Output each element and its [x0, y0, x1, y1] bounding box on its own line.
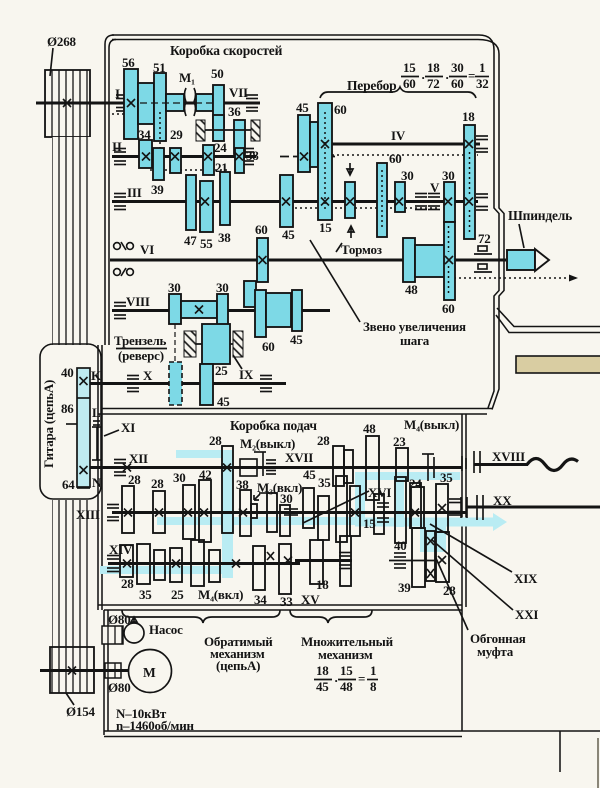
svg-text:М₄(выкл): М₄(выкл) — [404, 417, 459, 432]
svg-text:XV: XV — [301, 592, 320, 607]
svg-text:1: 1 — [479, 60, 485, 75]
svg-text:n–1460об/мин: n–1460об/мин — [116, 718, 194, 733]
svg-text:50: 50 — [211, 66, 224, 81]
svg-text:60: 60 — [389, 151, 402, 166]
svg-text:III: III — [127, 185, 142, 200]
svg-text:45: 45 — [290, 332, 303, 347]
svg-text:35: 35 — [440, 470, 453, 485]
svg-text:45: 45 — [282, 227, 295, 242]
svg-text:X: X — [143, 368, 153, 383]
svg-text:28: 28 — [121, 576, 134, 591]
svg-text:15: 15 — [403, 60, 416, 75]
svg-text:30: 30 — [280, 491, 293, 506]
svg-text:30: 30 — [168, 280, 181, 295]
svg-text:47: 47 — [184, 233, 197, 248]
svg-text:Шпиндель: Шпиндель — [508, 208, 572, 223]
svg-text:35: 35 — [318, 475, 331, 490]
svg-text:55: 55 — [200, 236, 213, 251]
svg-text:36: 36 — [228, 104, 241, 119]
svg-text:25: 25 — [171, 587, 184, 602]
svg-text:45: 45 — [303, 467, 316, 482]
svg-text:XIX: XIX — [514, 571, 538, 586]
svg-text:IV: IV — [391, 128, 406, 143]
svg-text:механизм: механизм — [318, 647, 373, 662]
svg-text:33: 33 — [280, 594, 293, 609]
svg-text:Звено увеличения: Звено увеличения — [363, 319, 466, 334]
svg-text:Перебор: Перебор — [347, 78, 396, 93]
svg-text:(реверс): (реверс) — [118, 348, 164, 363]
svg-text:24: 24 — [214, 140, 227, 155]
svg-text:Ø80: Ø80 — [108, 680, 131, 695]
svg-text:М₁: М₁ — [179, 70, 195, 85]
svg-text:48: 48 — [340, 679, 353, 694]
svg-text:Трензель: Трензель — [114, 333, 167, 348]
svg-text:муфта: муфта — [477, 644, 514, 659]
svg-text:(цепьА): (цепьА) — [216, 658, 260, 673]
svg-text:·: · — [421, 70, 425, 85]
svg-text:Тормоз: Тормоз — [341, 242, 382, 257]
svg-text:VIII: VIII — [126, 294, 150, 309]
svg-text:28: 28 — [128, 472, 141, 487]
svg-text:45: 45 — [217, 394, 230, 409]
svg-text:48: 48 — [363, 421, 376, 436]
svg-text:38: 38 — [246, 148, 259, 163]
svg-text:Насос: Насос — [149, 622, 183, 637]
svg-text:Ø154: Ø154 — [66, 704, 96, 719]
svg-text:1: 1 — [370, 663, 376, 678]
svg-text:30: 30 — [216, 280, 229, 295]
svg-text:XI: XI — [121, 420, 135, 435]
svg-text:VII: VII — [229, 85, 248, 100]
svg-text:35: 35 — [139, 587, 152, 602]
svg-text:XXI: XXI — [515, 607, 538, 622]
svg-text:34: 34 — [254, 592, 267, 607]
svg-text:шага: шага — [400, 333, 430, 348]
svg-text:Ø268: Ø268 — [47, 34, 77, 49]
svg-text:28: 28 — [317, 433, 330, 448]
svg-text:32: 32 — [476, 76, 489, 91]
svg-text:30: 30 — [173, 470, 186, 485]
svg-text:М₄(вкл): М₄(вкл) — [198, 587, 243, 602]
svg-text:XVII: XVII — [285, 450, 313, 465]
svg-text:30: 30 — [451, 60, 464, 75]
svg-text:45: 45 — [296, 100, 309, 115]
svg-text:28: 28 — [151, 476, 164, 491]
svg-text:XIII: XIII — [76, 507, 100, 522]
svg-text:72: 72 — [478, 231, 491, 246]
svg-text:L: L — [92, 405, 101, 420]
svg-text:Коробка скоростей: Коробка скоростей — [170, 43, 283, 58]
svg-text:72: 72 — [427, 76, 440, 91]
svg-text:М: М — [143, 665, 156, 680]
svg-text:39: 39 — [398, 580, 411, 595]
svg-text:М₂(выкл): М₂(выкл) — [240, 436, 295, 451]
svg-text:39: 39 — [151, 182, 164, 197]
svg-text:28: 28 — [209, 433, 222, 448]
svg-text:45: 45 — [316, 679, 329, 694]
svg-text:48: 48 — [405, 282, 418, 297]
svg-text:=: = — [358, 671, 365, 686]
svg-text:18: 18 — [462, 109, 475, 124]
svg-text:60: 60 — [403, 76, 416, 91]
svg-text:XVI: XVI — [368, 485, 391, 500]
svg-text:60: 60 — [334, 102, 347, 117]
svg-text:25: 25 — [215, 363, 228, 378]
svg-text:XVIII: XVIII — [492, 449, 525, 464]
svg-text:15: 15 — [340, 663, 353, 678]
svg-text:38: 38 — [218, 230, 231, 245]
svg-text:=: = — [468, 68, 475, 83]
svg-text:·: · — [334, 673, 338, 688]
svg-text:30: 30 — [442, 168, 455, 183]
svg-text:23: 23 — [393, 434, 406, 449]
svg-text:86: 86 — [61, 401, 74, 416]
svg-text:18: 18 — [427, 60, 440, 75]
svg-text:60: 60 — [262, 339, 275, 354]
svg-text:30: 30 — [401, 168, 414, 183]
svg-text:VI: VI — [140, 242, 154, 257]
svg-text:K: K — [91, 368, 102, 383]
svg-text:60: 60 — [442, 301, 455, 316]
svg-text:XII: XII — [129, 451, 148, 466]
svg-text:Коробка подач: Коробка подач — [230, 418, 317, 433]
svg-text:18: 18 — [316, 663, 329, 678]
svg-text:60: 60 — [451, 76, 464, 91]
svg-text:·: · — [445, 70, 449, 85]
svg-text:XX: XX — [493, 493, 512, 508]
svg-text:64: 64 — [62, 477, 75, 492]
svg-text:56: 56 — [122, 55, 135, 70]
svg-text:60: 60 — [255, 222, 268, 237]
svg-text:Гитара (цепьА): Гитара (цепьА) — [41, 380, 56, 468]
svg-text:29: 29 — [170, 127, 183, 142]
svg-text:8: 8 — [370, 679, 377, 694]
svg-text:15: 15 — [319, 220, 332, 235]
svg-text:40: 40 — [61, 365, 74, 380]
svg-text:N: N — [92, 475, 102, 490]
